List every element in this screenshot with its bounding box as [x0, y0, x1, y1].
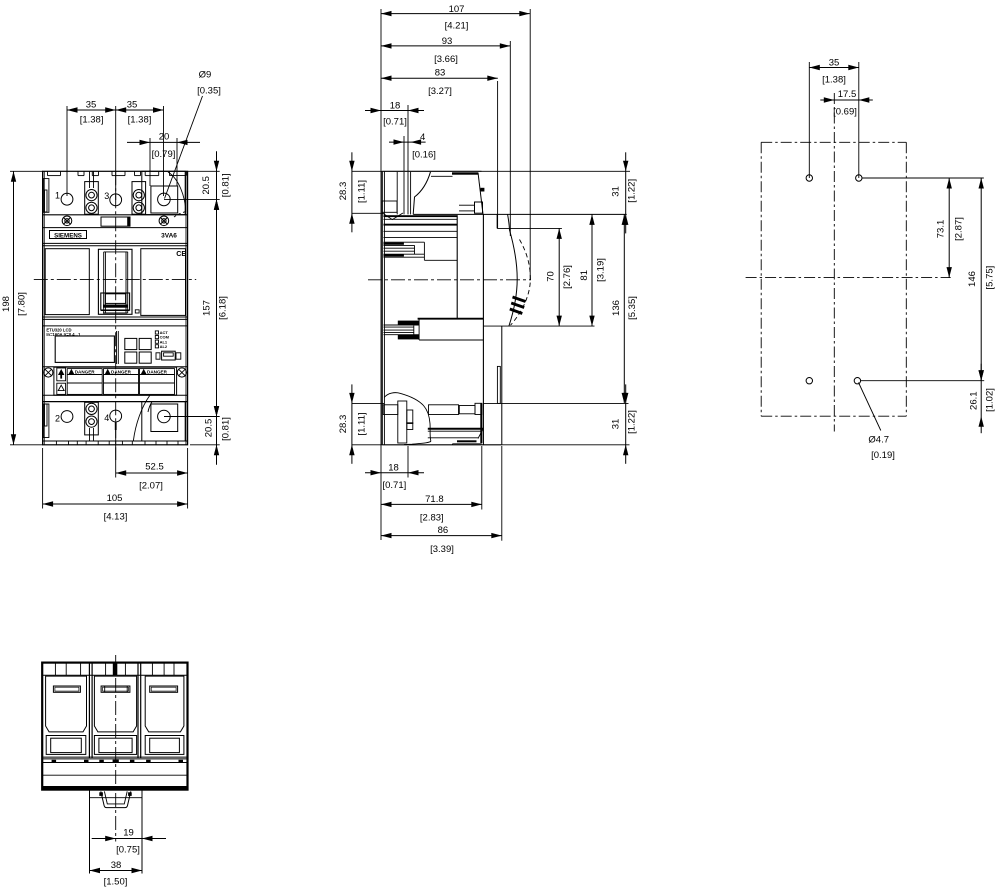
front view horizontal centerline	[34, 278, 196, 280]
SIEMENS band	[43, 227, 188, 229]
svg-text:[0.71]: [0.71]	[383, 480, 407, 491]
front view top vent slots	[47, 171, 49, 175]
front view bottom cavity line	[43, 440, 188, 442]
bottom view top strip	[42, 674, 187, 676]
dim 20.5 [0.81] bottom right	[164, 416, 220, 418]
svg-text:20.5: 20.5	[201, 176, 212, 195]
svg-text:[2.87]: [2.87]	[953, 217, 964, 241]
svg-text:[0.69]: [0.69]	[833, 106, 857, 117]
dim 70 [2.76]	[483, 325, 594, 327]
dim 157 [6.18] right	[216, 199, 218, 416]
svg-text:28.3: 28.3	[338, 415, 349, 434]
bottom release lever curve	[133, 395, 150, 440]
bottom view centerline	[115, 655, 117, 842]
svg-text:DANGER: DANGER	[111, 370, 132, 375]
svg-text:[4.13]: [4.13]	[104, 512, 128, 523]
svg-text:[1.38]: [1.38]	[80, 115, 104, 126]
svg-text:[7.80]: [7.80]	[17, 292, 28, 316]
DIN rail clip	[89, 790, 91, 874]
side view upper rear fins	[384, 241, 425, 243]
svg-text:70: 70	[545, 271, 556, 282]
svg-text:AL2: AL2	[160, 344, 168, 349]
side bottom terminal front thick	[480, 403, 482, 443]
toggle outer frame	[98, 249, 132, 314]
side bottom terminal plate	[428, 428, 483, 430]
dim 31 [1.22] bottom right	[502, 444, 630, 446]
svg-text:71.8: 71.8	[425, 494, 444, 505]
side terminal small square	[481, 188, 485, 192]
front view left terminal strip (top)	[43, 179, 49, 213]
svg-text:1: 1	[55, 191, 60, 201]
left terminal strip (bottom)	[43, 404, 49, 438]
svg-text:73.1: 73.1	[936, 220, 947, 239]
mid bar with screws	[62, 216, 72, 226]
top screw block B	[132, 182, 146, 215]
svg-text:105: 105	[107, 493, 123, 504]
svg-text:[0.19]: [0.19]	[871, 450, 895, 461]
svg-text:[0.81]: [0.81]	[221, 173, 232, 197]
svg-text:[0.75]: [0.75]	[116, 845, 140, 856]
front view body outline	[43, 171, 188, 445]
svg-text:86: 86	[438, 525, 449, 536]
dim 81 [3.19]	[591, 214, 593, 326]
svg-text:[0.35]: [0.35]	[197, 86, 221, 97]
svg-text:35: 35	[829, 58, 840, 69]
terminal 1 circle	[61, 193, 73, 205]
dim 38 [1.50] clip	[90, 870, 143, 872]
terminal 4 circle	[110, 410, 122, 422]
svg-text:[3.66]: [3.66]	[434, 54, 458, 65]
front view feet ticks	[55, 441, 57, 445]
svg-text:[1.50]: [1.50]	[104, 877, 128, 888]
svg-text:Ø9: Ø9	[199, 70, 212, 81]
svg-text:17.5: 17.5	[838, 89, 857, 100]
svg-text:[0.71]: [0.71]	[383, 117, 407, 128]
svg-text:[6.18]: [6.18]	[218, 296, 229, 320]
svg-text:81: 81	[579, 270, 590, 281]
side view mid fins	[418, 318, 484, 320]
dim 83 [3.27]	[497, 81, 499, 228]
svg-text:CE: CE	[176, 249, 186, 258]
svg-text:136: 136	[611, 300, 622, 316]
svg-text:[2.07]: [2.07]	[139, 481, 163, 492]
side view bottom edge	[382, 444, 502, 446]
plate horizontal centerline	[746, 277, 951, 279]
svg-text:26.1: 26.1	[969, 391, 980, 410]
svg-text:35: 35	[127, 100, 138, 111]
side view DIN foot rear	[501, 326, 503, 445]
svg-text:28.3: 28.3	[338, 182, 349, 201]
dim 146 [5.75]	[861, 380, 985, 382]
svg-text:[0.81]: [0.81]	[221, 417, 232, 441]
svg-text:35: 35	[86, 100, 97, 111]
plate vertical centerline	[833, 93, 835, 432]
top center slot	[89, 171, 91, 188]
svg-text:4: 4	[420, 132, 425, 143]
svg-text:[1.02]: [1.02]	[984, 388, 995, 412]
svg-text:18: 18	[390, 100, 401, 111]
bottom right big terminal	[142, 402, 185, 441]
svg-text:[0.79]: [0.79]	[152, 149, 176, 160]
dim 31 [1.22] top right	[482, 170, 631, 172]
mid panel right recess	[141, 249, 186, 316]
danger label bars	[67, 369, 102, 395]
mounting hole top left	[806, 175, 812, 181]
dim 105 [4.13]	[42, 448, 44, 509]
dim 73.1 [2.87]	[862, 177, 984, 179]
svg-text:[3.39]: [3.39]	[430, 544, 454, 555]
toggle handle	[101, 293, 130, 310]
svg-text:19: 19	[123, 828, 134, 839]
bottom view pole dividers	[88, 663, 90, 758]
svg-text:93: 93	[442, 36, 453, 47]
svg-text:18: 18	[388, 463, 399, 474]
side view escutcheon front face	[456, 215, 458, 319]
trip unit LCD	[55, 336, 114, 362]
knob grip hatch	[513, 297, 526, 302]
trip unit divider	[116, 331, 118, 364]
mounting hole bottom right	[854, 378, 860, 384]
dim 136 [5.35]	[483, 402, 628, 404]
dim 35 [1.38] first	[66, 106, 68, 196]
side terminal lock detail	[475, 202, 483, 213]
svg-text:[5.75]: [5.75]	[984, 266, 995, 290]
side view rear V notch	[382, 213, 403, 220]
dim 71.8 [2.83]	[481, 446, 483, 510]
dim 20.5 [0.81] top right	[188, 170, 220, 172]
svg-text:DANGER: DANGER	[147, 370, 168, 375]
warning symbol boxes	[57, 368, 66, 381]
svg-text:157: 157	[202, 300, 213, 316]
side view terminal inner lines	[396, 172, 398, 215]
terminal 3 circle	[110, 194, 122, 206]
dim 93 [3.66]	[509, 41, 511, 236]
side view rear top box	[382, 201, 397, 212]
svg-text:3VA6: 3VA6	[161, 232, 177, 239]
mid bar center rectangle	[101, 217, 130, 226]
dim dia 4.7 [0.19] with leader	[859, 383, 881, 431]
side view bottom terminal blob	[384, 393, 431, 445]
side bottom lug	[429, 405, 459, 415]
svg-text:31: 31	[611, 419, 622, 430]
side view lower front box	[497, 366, 500, 403]
dim 26.1 [1.02]	[980, 364, 982, 434]
bottom view clip marks row	[42, 762, 187, 764]
front view top terminal row separator	[43, 214, 188, 216]
svg-text:146: 146	[967, 271, 978, 287]
side bottom terminal inner rects	[398, 401, 407, 443]
dim 18 [0.71] top	[407, 105, 409, 171]
svg-text:198: 198	[1, 296, 12, 312]
svg-text:[1.22]: [1.22]	[627, 410, 638, 434]
bottom screw block A	[85, 402, 99, 435]
mounting plate outline (chain lines)	[761, 141, 906, 143]
dim 52.5 [2.07]	[115, 430, 117, 478]
dim 35 [1.38] plate	[808, 62, 810, 178]
svg-text:[2.76]: [2.76]	[562, 265, 573, 289]
bottom view outline	[42, 663, 187, 790]
svg-text:4: 4	[104, 413, 109, 423]
svg-text:20.5: 20.5	[204, 419, 215, 438]
mid panel left recess	[45, 249, 89, 315]
svg-text:2: 2	[55, 414, 60, 424]
mounting hole top right	[856, 175, 862, 181]
svg-text:3: 3	[104, 191, 109, 201]
dim 35 [1.38] second	[116, 109, 164, 111]
svg-text:38: 38	[111, 860, 122, 871]
svg-text:107: 107	[449, 4, 465, 15]
dim 107 [4.21]	[380, 9, 382, 540]
bottom view pole panels	[46, 676, 87, 732]
svg-text:[5.35]: [5.35]	[627, 296, 638, 320]
dim 19 [0.75] clip	[92, 838, 166, 840]
svg-text:[4.21]: [4.21]	[445, 21, 469, 32]
side view top edge	[382, 170, 481, 172]
svg-text:31: 31	[611, 186, 622, 197]
svg-text:[0.16]: [0.16]	[412, 150, 436, 161]
dim 17.5 [0.69] plate	[820, 99, 873, 101]
top right release lever curve	[168, 172, 186, 212]
lower panel divider	[43, 316, 188, 318]
svg-text:[1.11]: [1.11]	[357, 180, 368, 203]
svg-text:[1.11]: [1.11]	[357, 412, 368, 435]
bottom view base strips	[42, 774, 187, 776]
svg-text:[1.38]: [1.38]	[128, 115, 152, 126]
svg-text:[3.27]: [3.27]	[428, 86, 452, 97]
svg-text:[1.38]: [1.38]	[822, 74, 846, 85]
dim 28.3 [1.11] bottom left	[352, 402, 384, 404]
side view top terminal block	[452, 172, 478, 174]
svg-text:DANGER: DANGER	[75, 370, 96, 375]
terminal 2 circle	[61, 411, 73, 423]
bottom view lower boxes	[46, 736, 86, 755]
side view top cover bands	[384, 215, 458, 217]
svg-text:SIEMENS: SIEMENS	[54, 232, 82, 239]
side view main front face	[482, 214, 484, 444]
front view vertical centerline	[115, 171, 117, 460]
rating plate row	[43, 366, 188, 368]
mounting hole bottom left	[806, 378, 812, 384]
svg-text:Ø4.7: Ø4.7	[868, 435, 889, 446]
svg-text:20: 20	[159, 132, 170, 143]
svg-text:[2.83]: [2.83]	[420, 512, 444, 523]
trip unit LEDs	[155, 331, 158, 334]
dim 198 [7.80] left	[10, 170, 43, 172]
dim 18 [0.71] bottom	[407, 446, 409, 478]
dim 20 [0.79]	[149, 138, 151, 186]
dim 4 [0.16]	[403, 136, 405, 171]
trip unit buttons	[125, 338, 137, 349]
dim 86 [3.39]	[501, 446, 503, 541]
trip unit USB	[156, 353, 160, 359]
top right big terminal	[142, 171, 185, 214]
svg-text:83: 83	[435, 68, 446, 79]
dim 28.3 [1.11] top left	[352, 170, 382, 172]
side view rotary knob bulge	[496, 214, 498, 228]
svg-text:[1.22]: [1.22]	[627, 179, 638, 203]
top screw block A	[85, 182, 99, 215]
side view centerline	[368, 279, 531, 281]
side view left edge	[381, 171, 383, 445]
svg-text:52.5: 52.5	[145, 461, 164, 472]
svg-text:[3.19]: [3.19]	[596, 258, 607, 282]
small square below toggle	[135, 310, 139, 313]
rating plate screws	[44, 368, 53, 377]
